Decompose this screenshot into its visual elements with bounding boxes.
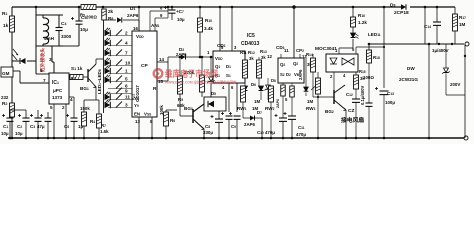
svg-text:R3: R3 [71, 76, 76, 81]
svg-text:CZ: CZ [348, 108, 354, 114]
svg-text:接电风扇: 接电风扇 [341, 116, 364, 124]
svg-text:AN1: AN1 [151, 23, 160, 28]
svg-text:R16: R16 [358, 13, 365, 18]
svg-text:维库电子市场网: 维库电子市场网 [165, 68, 218, 79]
svg-text:C1: C1 [3, 124, 8, 129]
svg-text:10μ: 10μ [177, 17, 185, 22]
svg-text:LED11: LED11 [368, 32, 381, 37]
svg-text:470μ: 470μ [296, 132, 306, 137]
svg-text:R6: R6 [170, 118, 175, 123]
svg-text:3: 3 [49, 57, 52, 62]
svg-text:R4: R4 [90, 119, 95, 124]
svg-text:μPC: μPC [53, 88, 63, 93]
svg-text:VSS: VSS [144, 112, 151, 117]
svg-text:200V: 200V [450, 82, 460, 87]
svg-text:VDD: VDD [215, 56, 223, 61]
svg-text:C2: C2 [17, 124, 22, 129]
svg-text:CP2: CP2 [296, 48, 304, 53]
svg-text:S2: S2 [280, 72, 285, 77]
svg-text:BG1: BG1 [80, 86, 89, 91]
svg-text:12: 12 [267, 54, 272, 59]
svg-text:2: 2 [62, 105, 65, 110]
svg-text:CD4013: CD4013 [241, 41, 260, 47]
svg-text:2AP6: 2AP6 [244, 122, 256, 127]
svg-text:2CP18: 2CP18 [394, 10, 409, 16]
svg-text:R13: R13 [260, 49, 267, 54]
svg-text:GM: GM [2, 71, 10, 76]
svg-text:C6: C6 [64, 124, 69, 129]
svg-text:+C7: +C7 [176, 9, 184, 14]
svg-text:Q2: Q2 [293, 61, 298, 66]
svg-text:D1: D1 [226, 64, 231, 69]
svg-text:3300: 3300 [61, 34, 72, 39]
svg-text:R: R [153, 86, 157, 92]
svg-text:C13: C13 [387, 91, 394, 96]
svg-text:R18: R18 [373, 55, 380, 60]
svg-text:16: 16 [133, 26, 138, 31]
svg-text:R5: R5 [80, 13, 85, 18]
svg-text:D2: D2 [286, 72, 291, 77]
svg-text:1M: 1M [459, 22, 466, 27]
svg-text:BG2: BG2 [325, 109, 334, 114]
svg-text:C3: C3 [30, 124, 35, 129]
svg-text:47μ: 47μ [37, 124, 45, 129]
svg-text:5: 5 [125, 77, 128, 82]
svg-text:8: 8 [40, 68, 43, 73]
svg-text:CP: CP [141, 63, 148, 69]
svg-text:2: 2 [125, 31, 128, 36]
svg-text:1.6k: 1.6k [100, 129, 109, 134]
svg-text:3k: 3k [261, 55, 266, 60]
svg-text:C14: C14 [424, 24, 431, 29]
svg-text:R10: R10 [205, 18, 212, 23]
svg-text:150k: 150k [80, 106, 90, 111]
svg-text:1: 1 [125, 69, 128, 74]
svg-text:1M: 1M [254, 99, 260, 104]
svg-text:S1 1k: S1 1k [71, 66, 83, 71]
svg-text:11: 11 [284, 48, 289, 53]
svg-text:330μ: 330μ [203, 130, 213, 135]
svg-text:10: 10 [125, 61, 131, 66]
svg-text:Y9: Y9 [134, 103, 139, 108]
svg-text:9: 9 [125, 89, 128, 94]
svg-text:C12: C12 [346, 92, 353, 97]
svg-text:D8: D8 [271, 78, 276, 83]
svg-text:1k: 1k [3, 23, 9, 29]
svg-text:1373: 1373 [52, 95, 63, 100]
svg-text:RW2: RW2 [265, 106, 275, 111]
svg-text:7: 7 [125, 51, 128, 56]
svg-text:10μ: 10μ [15, 131, 23, 136]
svg-text:R14: R14 [306, 52, 313, 57]
svg-text:2AP6: 2AP6 [276, 99, 280, 108]
svg-text:R12: R12 [248, 50, 255, 55]
svg-text:S1: S1 [226, 73, 231, 78]
svg-text:5: 5 [50, 105, 53, 110]
svg-text:2CW21G: 2CW21G [399, 77, 418, 82]
svg-text:10μ: 10μ [1, 131, 9, 136]
svg-text:5mH: 5mH [44, 36, 55, 41]
svg-text:100μ: 100μ [385, 100, 395, 105]
svg-text:Y8: Y8 [134, 96, 139, 101]
svg-text:3: 3 [125, 103, 128, 108]
svg-text:3k: 3k [249, 56, 254, 61]
svg-text:IC5: IC5 [247, 33, 255, 39]
svg-text:D6: D6 [251, 82, 256, 87]
svg-text:CD3: CD3 [276, 45, 285, 50]
svg-text:2AP6: 2AP6 [298, 69, 303, 80]
svg-text:2AP6: 2AP6 [127, 13, 139, 18]
svg-text:C9: C9 [231, 124, 236, 129]
svg-text:DW: DW [407, 66, 415, 71]
svg-text:1.2k: 1.2k [358, 20, 367, 25]
svg-text:VDD: VDD [136, 34, 144, 39]
svg-text:R17: R17 [459, 15, 466, 20]
svg-text:0.1μ/400V: 0.1μ/400V [360, 85, 365, 105]
svg-text:D5: D5 [211, 91, 216, 96]
svg-text:3.4k: 3.4k [204, 26, 213, 31]
svg-text:1M: 1M [307, 99, 313, 104]
svg-text:13: 13 [135, 119, 140, 124]
svg-text:R9: R9 [178, 97, 183, 102]
svg-text:D7: D7 [257, 110, 262, 115]
svg-text:R15: R15 [359, 69, 366, 74]
svg-text:15: 15 [158, 79, 163, 84]
svg-text:EN: EN [134, 112, 140, 117]
svg-text:10μ: 10μ [80, 27, 88, 32]
svg-text:14: 14 [159, 57, 164, 62]
svg-text:C8: C8 [205, 124, 210, 129]
svg-text:C10 470μ: C10 470μ [257, 130, 275, 135]
svg-text:LED1~LED8: LED1~LED8 [97, 69, 102, 94]
svg-text:200Ω: 200Ω [86, 15, 97, 20]
svg-text:232: 232 [1, 95, 9, 100]
svg-text:MOC3041: MOC3041 [315, 46, 337, 52]
svg-text:RW3: RW3 [306, 106, 316, 111]
svg-text:R11: R11 [240, 50, 247, 55]
svg-text:BG3: BG3 [184, 106, 193, 111]
svg-text:WWW.DZSC.COM 全球最大的电子元器件交易网: WWW.DZSC.COM 全球最大的电子元器件交易网 [165, 80, 237, 85]
svg-text:4: 4 [70, 97, 73, 102]
svg-text:4: 4 [125, 41, 128, 46]
svg-text:Q2: Q2 [280, 62, 285, 67]
svg-text:C11: C11 [298, 125, 305, 130]
svg-text:R7: R7 [101, 123, 106, 128]
svg-text:2k: 2k [108, 9, 114, 14]
svg-text:7: 7 [43, 78, 46, 83]
svg-text:RW1: RW1 [237, 106, 247, 111]
svg-text:2AP6: 2AP6 [176, 52, 187, 57]
